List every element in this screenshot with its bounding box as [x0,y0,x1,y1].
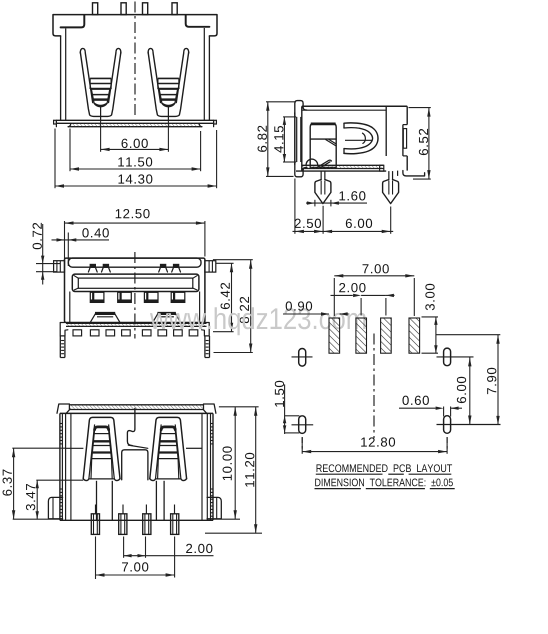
pcb dim 7.90 [436,335,501,425]
view5 left wall [60,413,71,520]
view5 right wall [202,413,213,520]
pcb hole top-left [292,349,313,367]
view2 front flange [295,101,307,177]
watermark [150,307,366,335]
view2 body outline [302,106,407,171]
view1 dim 14.30 [55,129,217,189]
pcb dim 12.80 [302,437,447,453]
view5 solder feet [91,505,179,535]
view5 left bracket foot [48,497,62,518]
view5 middle hook [127,408,147,449]
view3 latch bumps [90,313,180,322]
view3 dim 0.40 [52,228,110,266]
view3 bottom solder tabs [73,330,198,336]
view2 D contact [344,123,378,154]
pcb hole bottom-left [292,416,314,449]
view5 dim 3.47 [26,480,83,519]
view1 bottom plate [54,120,217,127]
view2 right foot [398,171,425,176]
view1 left wall [61,29,66,121]
view1 left V contact [80,48,121,120]
view5 wall serrations [60,424,213,517]
view3 left leg [60,336,65,358]
pcb hole bottom-right [437,416,501,449]
view5 dim 6.37 [3,448,66,519]
view2 dim 6.82 [258,102,296,177]
view1 dim 6.00 [101,121,169,152]
view3 dim 6.42 [213,263,234,331]
pcb dim 1.50 [275,381,300,434]
view1 right V contact [148,48,189,120]
view2 dim 4.15 [274,117,296,162]
view5 top right tab [204,404,216,413]
view2 right block [403,106,407,170]
view1 right wall [204,28,209,120]
view1 right ear [186,15,217,36]
view3 right leg [205,336,210,358]
view5 right contact blade [150,417,187,520]
view3 dim 8.22 [213,260,253,353]
view2 dim 2.50 6.00 [293,179,394,234]
view5 top plate [60,405,213,414]
view2 dim 1.60 [306,191,367,206]
view2 base plate [296,159,386,171]
view3 centerline [134,252,136,339]
view3 tongue [72,274,199,291]
view3 dim 0.72 [33,223,61,285]
pcb hole top-right [437,348,474,366]
view5 dim 7.00 [96,537,175,580]
view1 shell top edge [53,14,217,16]
view5 left contact blade [83,417,120,520]
pcb dim 6.00 [457,357,472,424]
view5 body bottom edge [60,519,213,521]
pcb pads hatched [329,318,420,353]
view2 inner housing [310,124,336,168]
view5 dim 2.00 [124,537,214,558]
pcb dim 0.90 [283,301,349,315]
view3 contact slots [90,292,185,302]
pcb tolerance note [315,479,455,489]
pcb centerline [373,334,375,439]
pcb dim 7.00 [334,264,414,316]
view5 right bracket foot [207,497,221,518]
view3 top cap [68,258,201,267]
view3 side tabs [54,261,216,272]
view5 dim 11.20 [205,407,262,533]
view5 top left tab [57,404,69,413]
view2 left through pin [315,171,331,204]
view1 top solder pins [93,3,178,15]
view3 spring tabs [88,265,180,272]
view3 dim 12.50 [65,209,205,264]
view5 middle slot [122,450,148,480]
view3 base plate [60,323,209,336]
view5 dim 10.00 [214,407,259,519]
pcb layout title [316,464,452,474]
pcb dim 3.00 [422,284,439,353]
view5 shelf lines [66,447,202,449]
view2 right through pin [383,171,399,204]
view3 shell outline [65,258,205,322]
view1 centerline [134,2,136,119]
pcb dim 2.00 [331,283,395,316]
pcb dim 0.60 [399,396,462,417]
view2 dim 6.52 [409,108,431,180]
view1 left ear [53,15,84,36]
view1 dim 11.50 [70,129,201,172]
